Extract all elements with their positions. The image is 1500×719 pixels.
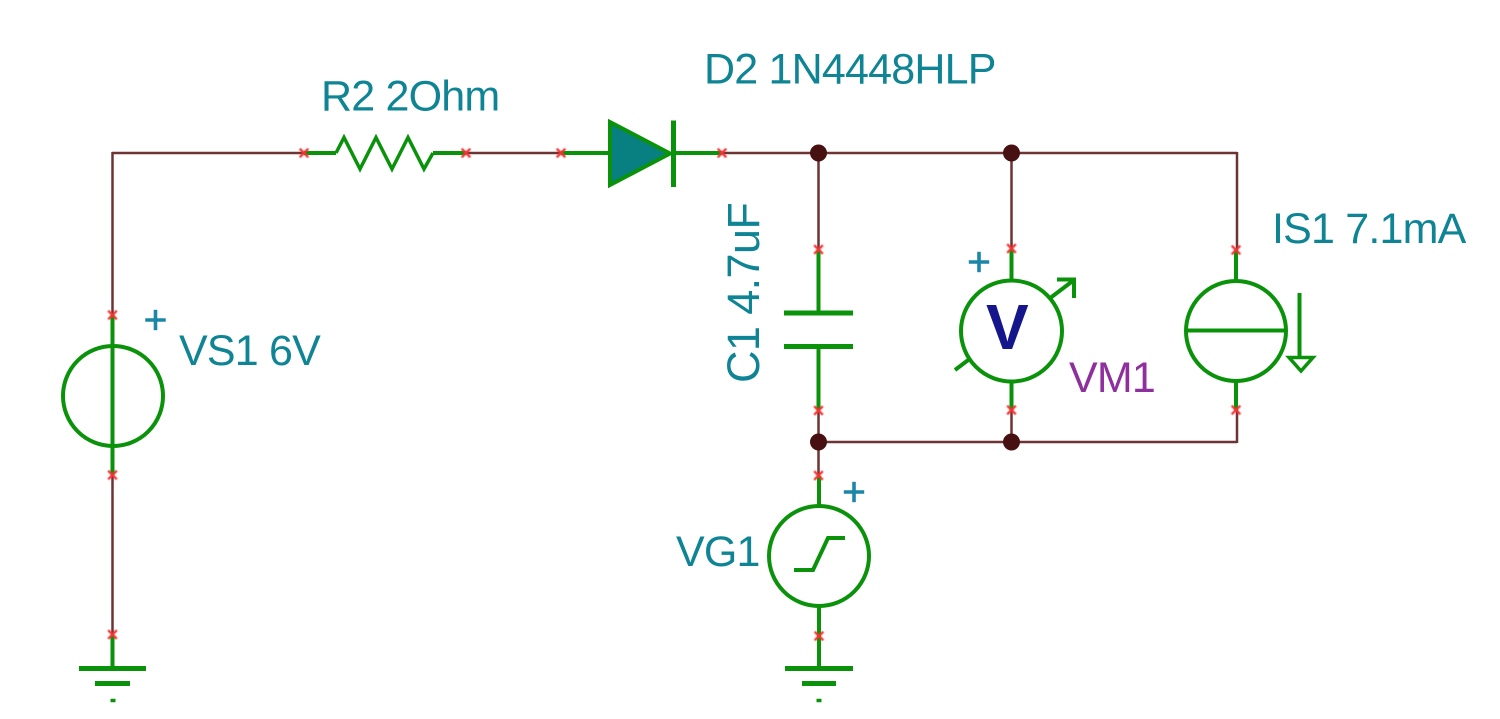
- pin C1 top: [814, 245, 823, 254]
- wire top main (diode to right corner): [722, 152, 1237, 155]
- pin VG1 plus: [814, 471, 823, 480]
- current source IS1: [1186, 250, 1313, 410]
- svg-text:VM1: VM1: [1069, 354, 1155, 402]
- pin ground1: [108, 630, 117, 639]
- svg-text:V: V: [986, 291, 1029, 363]
- pin D2 cathode: [718, 149, 727, 158]
- generator VG1: [769, 476, 869, 666]
- pin VM1 plus: [1007, 244, 1016, 253]
- svg-text:IS1 7.1mA: IS1 7.1mA: [1272, 205, 1467, 253]
- pin R2 right: [462, 149, 471, 158]
- node dot (bottom left junction): [810, 434, 827, 451]
- pin VS1 top: [108, 311, 117, 320]
- ground (VS1): [79, 636, 146, 701]
- svg-text:D2 1N4448HLP: D2 1N4448HLP: [704, 46, 996, 94]
- node dot (bottom right junction): [1003, 434, 1020, 451]
- plus sign VM1: [969, 252, 989, 272]
- wire VM1 top branch: [1010, 153, 1013, 249]
- svg-text:VS1 6V: VS1 6V: [179, 327, 321, 375]
- wire C1 bottom branch: [817, 410, 820, 442]
- svg-text:VG1: VG1: [676, 528, 760, 576]
- pin R2 left: [300, 149, 309, 158]
- svg-text:R2 2Ohm: R2 2Ohm: [321, 73, 499, 121]
- wire right vertical top (corner to IS1): [1236, 152, 1239, 250]
- svg-text:C1 4.7uF: C1 4.7uF: [718, 203, 769, 383]
- pin VG1 minus: [815, 632, 824, 641]
- pin IS1 bottom: [1232, 406, 1241, 415]
- wire bottom horizontal: [819, 441, 1238, 444]
- voltmeter VM1: [955, 249, 1076, 410]
- plus sign VG1: [844, 482, 864, 502]
- wire between resistor and diode: [466, 152, 561, 155]
- pin VM1 minus: [1007, 406, 1016, 415]
- pin marks (red x): [108, 149, 1240, 641]
- ground (VG1): [785, 669, 853, 701]
- voltage source VS1: [63, 315, 163, 475]
- wire VS1 bottom to ground: [111, 475, 114, 636]
- wire VG1 top branch: [817, 442, 820, 476]
- pin D2 anode: [557, 149, 566, 158]
- resistor R2: [304, 138, 466, 170]
- node dot (top right junction): [1003, 145, 1020, 162]
- pin IS1 top: [1232, 246, 1241, 255]
- wire top-left horizontal: [112, 152, 304, 155]
- capacitor C1: [784, 250, 853, 410]
- wire right vertical bottom (IS1 to corner): [1236, 410, 1239, 443]
- wire VM1 bottom branch: [1010, 410, 1013, 442]
- node dot (top left junction): [810, 145, 827, 162]
- pin VS1 bottom: [108, 471, 117, 480]
- wire left vertical (corner to VS1 top): [111, 152, 114, 315]
- wire C1 top branch: [817, 153, 820, 250]
- plus sign VS1: [145, 310, 165, 330]
- diode D2: [561, 121, 722, 188]
- pin C1 bottom: [814, 406, 823, 415]
